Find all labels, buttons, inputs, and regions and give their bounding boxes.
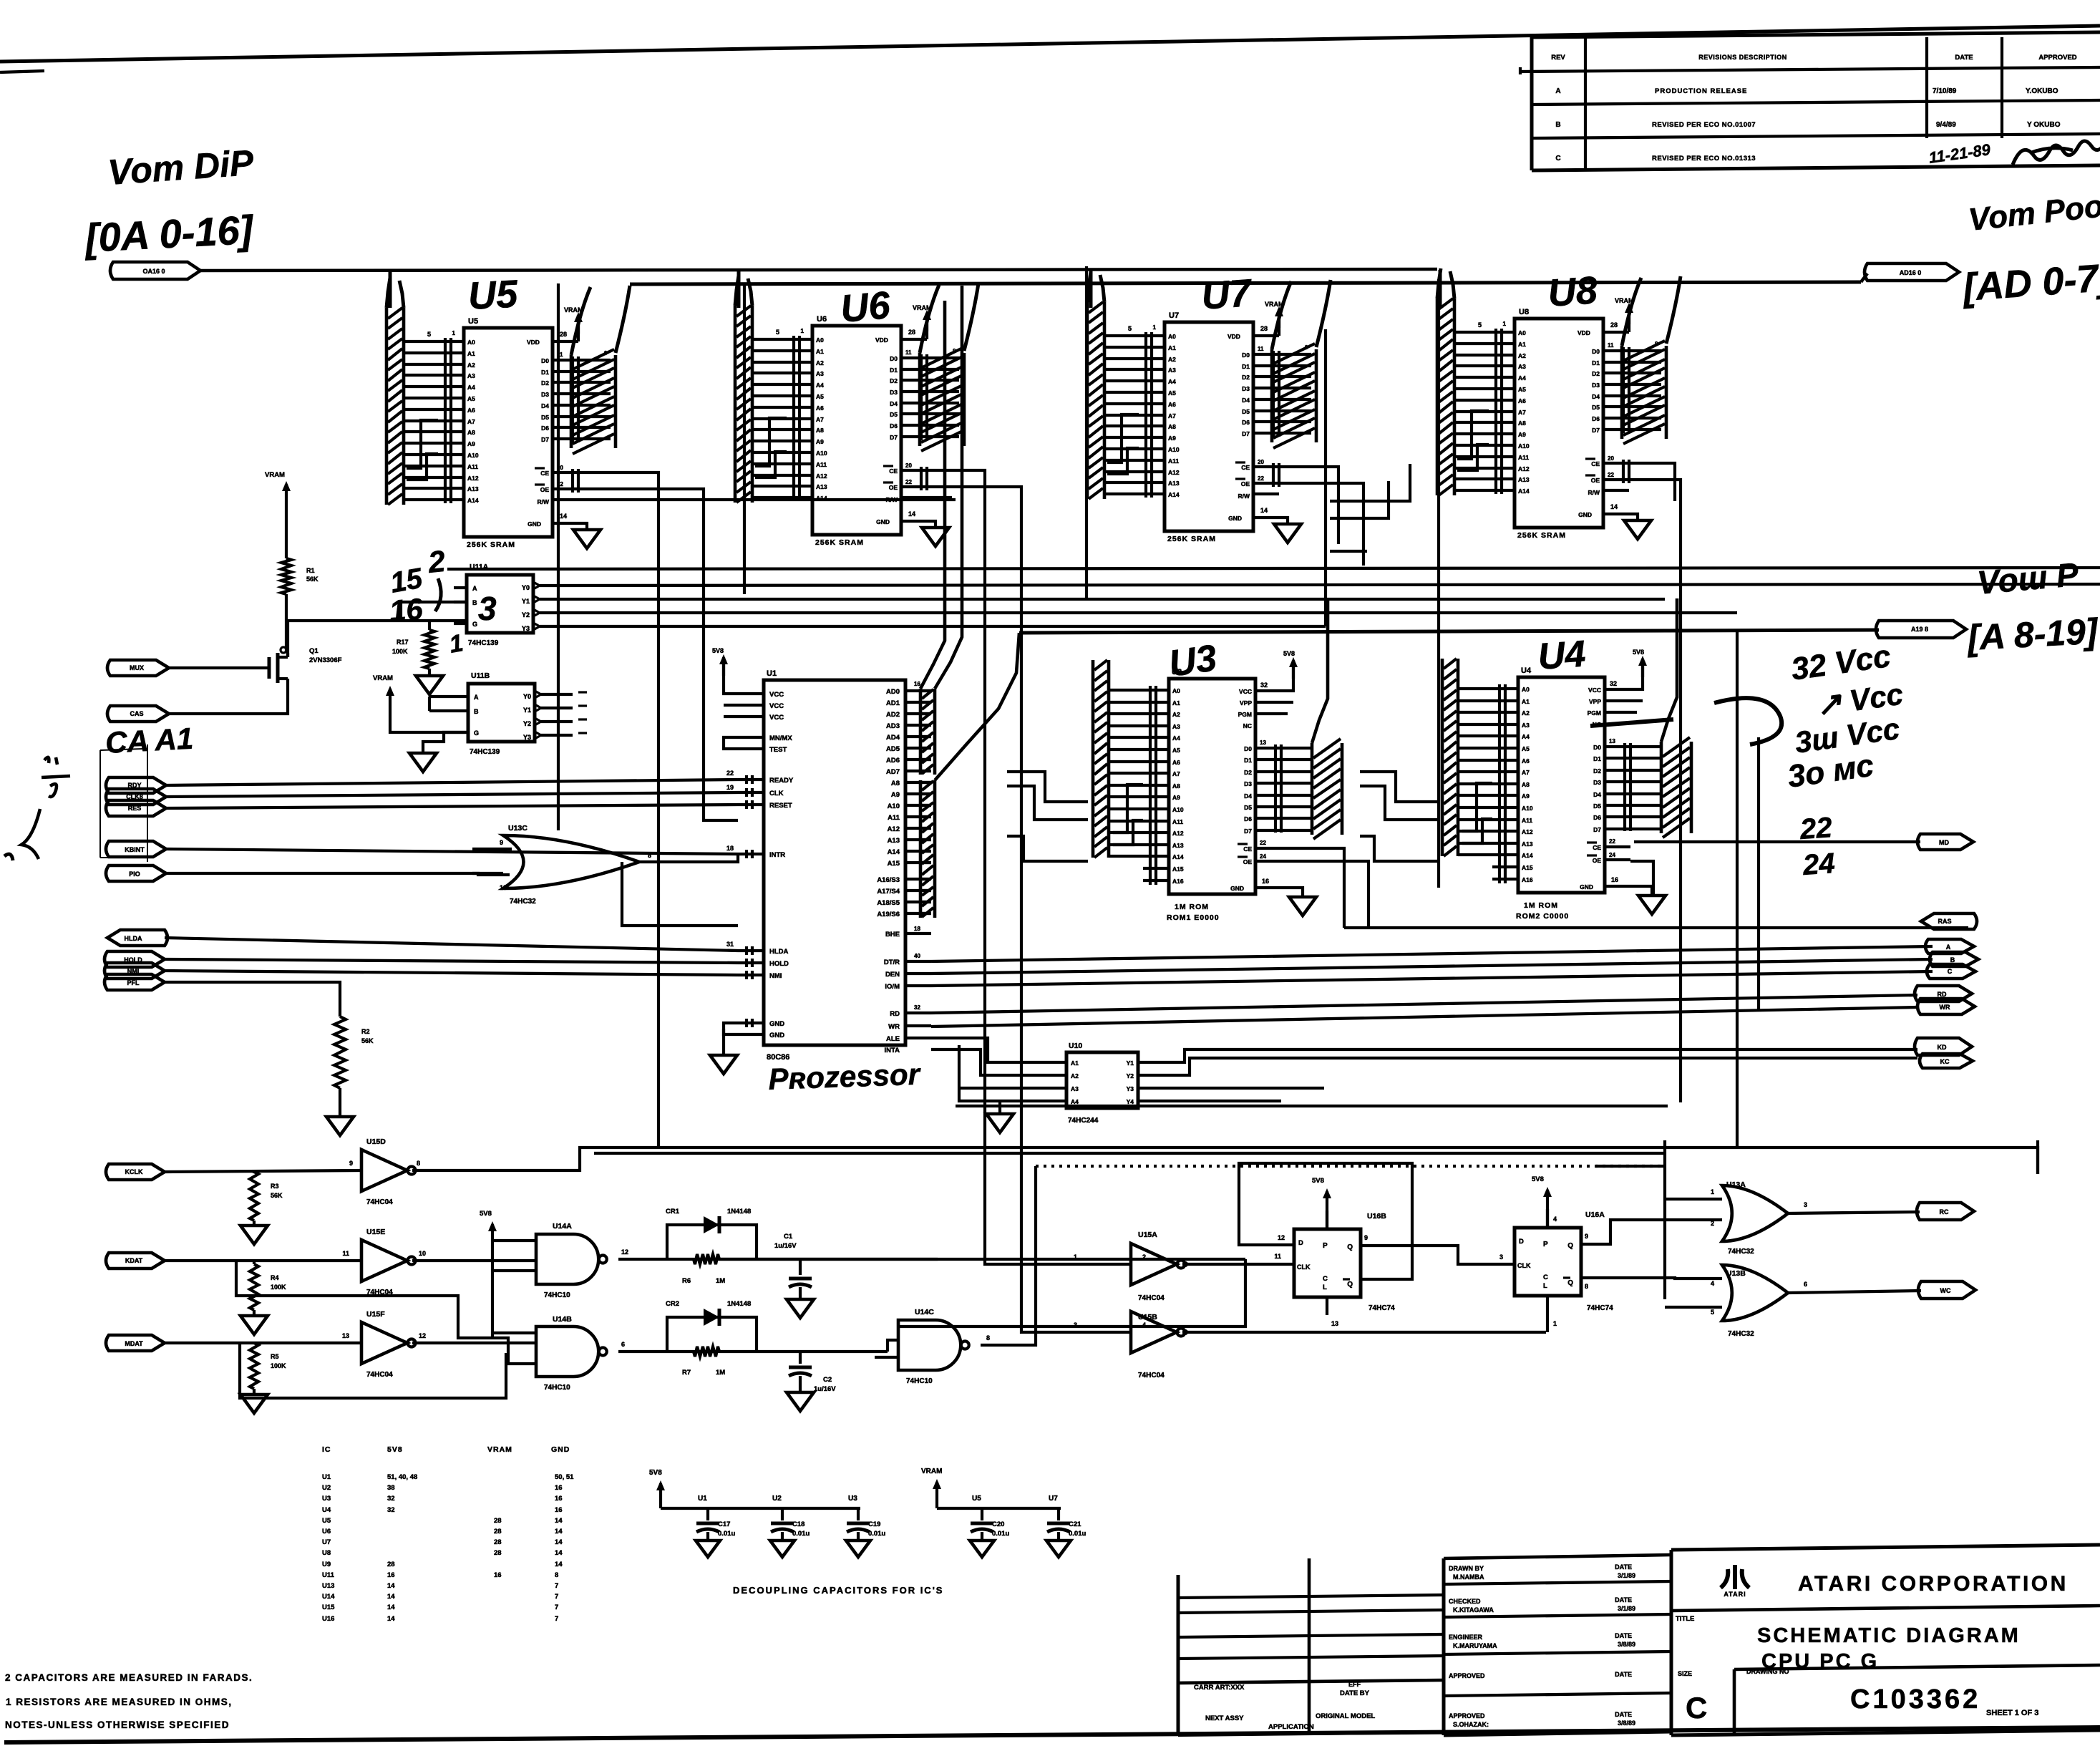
arrow R17 down [416,669,443,694]
svg-text:A3: A3 [1071,1085,1079,1092]
svg-text:D3: D3 [1593,779,1601,786]
wire U13A in1b [1596,1153,1665,1199]
svg-text:12: 12 [1278,1234,1285,1241]
gate U15B 74HC04 [1074,1311,1185,1379]
svg-text:A4: A4 [1172,734,1180,742]
svg-text:U16A: U16A [1585,1211,1605,1219]
svg-text:A13: A13 [816,483,827,490]
svg-text:D: D [1519,1238,1524,1246]
svg-text:U16B: U16B [1367,1212,1386,1221]
power 5V8 U16B [1312,1177,1331,1229]
svg-text:11: 11 [342,1250,349,1257]
svg-text:A10: A10 [1168,446,1180,453]
svg-text:20: 20 [1258,459,1264,465]
svg-text:Y1: Y1 [523,707,531,714]
svg-text:TITLE: TITLE [1676,1615,1694,1623]
svg-text:14: 14 [555,1528,563,1536]
svg-text:CE: CE [1593,844,1601,851]
label U4 handwritten [1537,633,1587,678]
svg-text:7: 7 [555,1615,558,1623]
power 5V8 decoupling rail [649,1469,860,1508]
svg-text:A12: A12 [816,472,827,480]
wire U16A Qbar [1581,1278,1722,1290]
svg-text:VRAM: VRAM [373,674,393,682]
svg-text:1u/16V: 1u/16V [814,1385,836,1393]
wire vertical x2457 [1757,737,1760,1011]
svg-text:KD: KD [1938,1044,1947,1051]
svg-text:1: 1 [1711,1188,1714,1195]
svg-text:1M: 1M [716,1369,725,1377]
svg-text:3: 3 [1499,1253,1503,1261]
svg-text:C2: C2 [823,1376,832,1384]
svg-text:APPROVED: APPROVED [2038,54,2076,62]
svg-text:74HC10: 74HC10 [544,1291,570,1299]
svg-text:14: 14 [387,1582,395,1590]
gate U13A 74HC32 [1711,1180,1788,1256]
connector pill RX2 [106,1253,165,1269]
svg-text:A7: A7 [1168,412,1176,419]
svg-text:Y3: Y3 [523,734,531,741]
svg-text:1u/16V: 1u/16V [774,1242,797,1250]
svg-text:GND: GND [1580,883,1593,891]
svg-text:U4: U4 [1521,666,1532,675]
svg-text:U6: U6 [817,315,827,324]
wire IRQ to OR [166,872,503,875]
svg-text:A4: A4 [1522,733,1530,740]
svg-text:Y2: Y2 [522,611,530,619]
connector pill RX1 [106,1164,165,1180]
svg-text:A14: A14 [1172,853,1184,860]
connector pill NMI [104,963,165,979]
svg-text:U8: U8 [1547,268,1599,315]
wire vertical x1852 [1324,329,1327,626]
wire U14C out [981,1166,1036,1345]
svg-text:13: 13 [342,1332,349,1339]
svg-text:SCHEMATIC DIAGRAM: SCHEMATIC DIAGRAM [1757,1624,2021,1647]
svg-text:OE: OE [1241,480,1250,487]
svg-text:C18: C18 [792,1520,804,1528]
svg-text:18: 18 [726,845,734,852]
svg-text:14: 14 [1260,507,1268,514]
svg-text:74HC04: 74HC04 [366,1371,393,1379]
svg-text:50, 51: 50, 51 [555,1473,574,1481]
svg-text:7: 7 [555,1582,558,1590]
svg-text:U3: U3 [848,1495,857,1503]
handwritten note [AD 0-7] [1960,256,2100,310]
label 15 handwritten [388,563,425,599]
svg-text:U7: U7 [1200,271,1255,318]
wire U8 OE run [1629,480,1681,1102]
wire horizontal y795 [447,568,2100,569]
wire long y1399 [931,995,1917,1027]
svg-text:11: 11 [1258,346,1264,352]
svg-text:9/4/89: 9/4/89 [1936,121,1956,129]
svg-text:R5: R5 [271,1353,279,1360]
svg-text:0.01u: 0.01u [718,1530,735,1538]
svg-text:8: 8 [417,1160,420,1167]
svg-text:A6: A6 [816,404,824,412]
svg-text:100K: 100K [271,1362,286,1369]
svg-text:A8: A8 [891,780,900,787]
svg-text:B: B [1555,121,1560,129]
svg-text:5V8: 5V8 [387,1445,403,1454]
connector pill CAS0 [1917,1203,1974,1220]
svg-text:CE: CE [1243,845,1252,853]
IC U4 1M ROM [1442,598,1691,921]
svg-text:Y0: Y0 [523,693,531,700]
svg-text:A17/S4: A17/S4 [877,888,900,896]
svg-text:A0: A0 [1518,329,1526,336]
IC U1 CPU 80C86 [710,647,931,1074]
svg-text:16: 16 [555,1506,563,1514]
svg-text:28: 28 [494,1549,502,1557]
svg-text:U6: U6 [322,1528,331,1536]
svg-text:AD1: AD1 [886,699,900,707]
wire vertical x780 [557,283,560,830]
svg-text:2 CAPACITORS ARE MEASURED IN: 2 CAPACITORS ARE MEASURED IN FARADS. [5,1672,253,1683]
svg-text:C20: C20 [992,1520,1004,1528]
svg-text:U4: U4 [1537,633,1587,678]
svg-text:VCC: VCC [769,702,784,710]
wire U11A Y3 [554,625,1326,628]
ground R3 [240,1221,268,1244]
ground U10 [986,1062,1041,1132]
svg-text:A9: A9 [1522,792,1530,800]
svg-text:C: C [1543,1274,1548,1281]
svg-text:U14C: U14C [915,1308,934,1316]
svg-text:A12: A12 [1172,830,1184,837]
svg-text:22: 22 [1258,475,1264,482]
connector pill PFAIL [104,974,165,990]
svg-text:VRAM: VRAM [487,1445,512,1454]
svg-text:DEN: DEN [885,971,900,979]
svg-text:AD3: AD3 [886,722,900,730]
ground R5 [240,1389,268,1413]
svg-text:A2: A2 [816,359,824,367]
svg-text:A12: A12 [1522,828,1533,835]
svg-text:L: L [1323,1284,1327,1291]
svg-text:7/10/89: 7/10/89 [1933,87,1957,95]
wire OA bus drop [737,270,741,308]
svg-text:CR2: CR2 [666,1300,679,1308]
svg-text:A14: A14 [888,848,900,856]
svg-text:GND: GND [876,518,890,525]
svg-text:REVISED PER ECO NO.01007: REVISED PER ECO NO.01007 [1652,121,1756,129]
svg-text:D4: D4 [1592,393,1600,400]
svg-text:A10: A10 [816,450,827,457]
svg-text:A13: A13 [888,837,900,845]
svg-text:RAS: RAS [1938,918,1951,925]
svg-text:A11: A11 [467,463,478,470]
resistor R3 [250,1172,283,1221]
label Vom P right handwritten [1975,556,2080,601]
svg-text:P: P [1323,1242,1328,1250]
svg-text:A6: A6 [1168,401,1176,408]
svg-text:OA16 0: OA16 0 [142,268,165,275]
svg-text:GND: GND [769,1032,784,1039]
wire U13C in2 jog [472,873,510,891]
wire Q1 gate [169,666,269,669]
svg-text:A11: A11 [816,461,827,468]
wire OA bus drop [1089,270,1093,308]
power VRAM2 [373,674,468,732]
power 5V8 U16A [1532,1175,1557,1228]
svg-text:A0: A0 [467,339,475,346]
svg-text:24: 24 [1802,848,1836,881]
svg-text:D1: D1 [1244,757,1252,764]
svg-text:U15: U15 [322,1604,335,1611]
svg-text:D3: D3 [1242,385,1250,392]
svg-text:D0: D0 [541,357,549,364]
svg-text:1: 1 [1553,1320,1557,1327]
svg-text:C1: C1 [784,1233,793,1241]
svg-text:14: 14 [387,1604,395,1611]
wire U16A clr [1547,1314,1557,1332]
svg-text:A13: A13 [1172,842,1184,849]
svg-text:U10: U10 [1069,1042,1082,1050]
svg-text:ORIGINAL MODEL: ORIGINAL MODEL [1316,1712,1375,1720]
wire U6 OE run [927,487,1021,1181]
svg-text:WR: WR [1940,1004,1950,1011]
svg-text:28: 28 [1260,325,1268,332]
svg-text:GND: GND [528,520,541,528]
svg-text:1: 1 [801,328,804,334]
svg-text:Y2: Y2 [523,720,531,727]
svg-text:74HC32: 74HC32 [1728,1248,1754,1256]
svg-text:74HC04: 74HC04 [1138,1294,1165,1302]
resistor R1 [281,558,319,594]
svg-text:1 RESISTORS ARE MEASURED IN: 1 RESISTORS ARE MEASURED IN OHMS, [6,1697,233,1707]
svg-text:8: 8 [555,1571,558,1579]
svg-text:VRAM: VRAM [921,1468,942,1475]
svg-text:DATE: DATE [1615,1711,1632,1718]
svg-text:A: A [474,694,479,701]
svg-text:U15B: U15B [1138,1313,1157,1321]
svg-text:A7: A7 [1522,769,1530,776]
svg-text:A10: A10 [467,452,479,459]
wire U11A Y0 [554,584,2100,586]
svg-text:[A 8-19]: [A 8-19] [1965,611,2100,658]
gate U15A 74HC04 [1074,1231,1185,1302]
svg-text:A9: A9 [1172,794,1180,801]
svg-text:KCLK: KCLK [125,1168,143,1175]
logo Atari [1721,1565,1749,1598]
label 1 handwritten [447,629,465,659]
svg-text:A11: A11 [1168,457,1179,465]
svg-text:16: 16 [388,592,424,628]
svg-text:Y OKUBO: Y OKUBO [2027,121,2061,129]
svg-text:5V8: 5V8 [1312,1177,1324,1185]
connector A8-19 pill [1876,621,1966,638]
svg-text:R4: R4 [271,1274,279,1281]
title company [1798,1572,2069,1596]
svg-text:74HC74: 74HC74 [1587,1304,1613,1312]
svg-text:VCC: VCC [1588,687,1601,694]
handwriting arrow curve [1590,698,1781,744]
svg-text:C: C [1323,1275,1328,1283]
svg-text:ENGINEER: ENGINEER [1449,1634,1483,1641]
svg-text:22: 22 [1609,838,1615,845]
wire U13B out [1787,1281,1921,1293]
wire nested routes U3 [1007,767,1088,861]
svg-text:2: 2 [1711,1220,1714,1227]
svg-text:32: 32 [1610,680,1617,687]
svg-text:14: 14 [1610,503,1618,510]
svg-text:D5: D5 [1244,804,1252,811]
IC U6 256K SRAM [735,276,978,547]
svg-text:OE: OE [1593,857,1602,864]
svg-text:A1: A1 [467,350,475,357]
wire U14B out [618,1341,888,1352]
svg-text:D2: D2 [1242,374,1250,381]
capacitor C18 [770,1495,810,1557]
svg-text:AD4: AD4 [886,734,900,742]
svg-text:REVISED PER ECO NO.01313: REVISED PER ECO NO.01313 [1652,155,1756,162]
connector pill RX3 [106,1335,165,1351]
title cpu [1761,1650,1879,1673]
svg-text:16: 16 [1262,878,1269,885]
wire RX2 [165,1259,361,1262]
capacitor C17 [696,1495,735,1557]
IC U16B 74HC74 [1294,1211,1395,1315]
wire U13A out [1787,1201,1920,1213]
svg-text:C: C [1948,968,1953,975]
svg-text:31: 31 [726,941,734,948]
svg-text:MUX: MUX [130,664,144,671]
svg-text:U15D: U15D [366,1137,386,1146]
svg-text:A14: A14 [467,497,479,504]
svg-text:G: G [474,729,479,737]
svg-text:D3: D3 [1244,780,1252,787]
svg-text:CE: CE [889,467,898,475]
svg-text:D5: D5 [1592,404,1600,411]
svg-text:16: 16 [387,1571,395,1579]
svg-text:VPP: VPP [1589,698,1601,705]
svg-text:14: 14 [387,1615,395,1623]
title block lines [1178,1545,2100,1735]
wire INTR [166,849,738,854]
svg-text:A0: A0 [1168,333,1176,340]
wire U10 out2 [1163,1058,1917,1075]
wire feedback E [236,1261,536,1364]
svg-text:A1: A1 [1522,698,1530,705]
svg-text:R1: R1 [306,567,315,574]
wire feedback F [240,1343,506,1398]
svg-text:4: 4 [1142,1321,1146,1329]
wire OA bus drop [389,270,392,308]
svg-text:U16: U16 [322,1615,334,1623]
svg-text:0.01u: 0.01u [1069,1530,1086,1538]
svg-text:1N4148: 1N4148 [727,1300,751,1308]
IC U3 1M ROM [1093,600,1342,922]
svg-text:Q: Q [1567,1279,1573,1287]
svg-text:9: 9 [349,1160,353,1167]
svg-text:U11B: U11B [471,671,490,680]
svg-text:D0: D0 [1244,745,1252,752]
ground R4 [240,1310,268,1334]
svg-text:5: 5 [427,331,431,338]
svg-text:D4: D4 [1593,791,1601,798]
svg-text:D1: D1 [890,367,898,374]
wire long y1611 [594,1152,1665,1155]
handwriting 32Vdd block [1786,639,1905,795]
ground U11B [409,732,455,772]
svg-text:A8: A8 [467,429,475,436]
svg-text:RD: RD [890,1010,900,1018]
svg-text:1N4148: 1N4148 [727,1208,751,1216]
handwritten note Vom Pooz top [1967,188,2100,237]
svg-text:CLK: CLK [1297,1263,1311,1271]
svg-text:Y0: Y0 [522,584,530,591]
wire READY [166,780,738,785]
svg-text:OE: OE [1243,858,1253,865]
wire U15A in [985,1167,1131,1332]
svg-text:B: B [1950,956,1955,964]
svg-text:9: 9 [500,839,503,846]
wire CLK [166,792,738,797]
svg-text:CARR ART:XXX: CARR ART:XXX [1194,1684,1245,1692]
svg-text:A13: A13 [467,485,479,493]
svg-text:A9: A9 [1168,435,1176,442]
label U5 handwritten [467,272,519,318]
svg-text:U14A: U14A [553,1222,572,1231]
bus OA0-16 [200,269,1437,271]
svg-text:CA A1: CA A1 [104,722,194,760]
svg-text:14: 14 [555,1538,563,1546]
svg-text:A19 8: A19 8 [1911,626,1928,633]
svg-text:NC: NC [1243,722,1252,729]
wire dotted y1629 [1036,1165,1665,1168]
svg-text:U13A: U13A [1726,1180,1746,1189]
svg-text:56K: 56K [306,576,319,583]
svg-text:D2: D2 [1592,370,1600,377]
svg-text:VCC: VCC [1239,688,1252,695]
svg-text:3/1/89: 3/1/89 [1618,1605,1635,1612]
wire U11B AB [429,697,455,711]
svg-text:22: 22 [726,770,734,777]
svg-text:GND: GND [551,1445,570,1454]
svg-text:A18/S5: A18/S5 [877,899,900,907]
svg-text:U7: U7 [1169,311,1179,320]
svg-text:A1: A1 [1518,341,1526,348]
svg-text:C17: C17 [718,1520,730,1528]
svg-text:3/8/89: 3/8/89 [1618,1641,1635,1648]
svg-text:10: 10 [419,1250,426,1257]
svg-text:D6: D6 [1242,419,1250,426]
label Prozessor handwritten [768,1057,923,1096]
svg-text:U6: U6 [839,283,893,331]
svg-text:A6: A6 [1522,757,1530,765]
svg-text:A11: A11 [1172,818,1183,825]
svg-text:P: P [1543,1241,1548,1248]
svg-text:A2: A2 [1071,1072,1079,1080]
svg-text:5V8: 5V8 [480,1210,492,1218]
svg-text:D4: D4 [1242,397,1250,404]
svg-text:28: 28 [1610,321,1618,329]
svg-text:5: 5 [1478,321,1482,329]
svg-text:28: 28 [494,1538,502,1546]
note capacitors [5,1672,253,1683]
svg-text:28: 28 [560,331,567,338]
svg-text:A9: A9 [467,440,475,447]
svg-text:R/W: R/W [1588,489,1600,496]
svg-text:A10: A10 [1522,805,1533,812]
svg-text:D1: D1 [1592,359,1600,367]
svg-text:D3: D3 [1592,382,1600,389]
svg-text:K.KITAGAWA: K.KITAGAWA [1453,1606,1494,1614]
svg-text:CLK: CLK [1517,1262,1531,1269]
svg-text:HOLD: HOLD [769,960,789,968]
